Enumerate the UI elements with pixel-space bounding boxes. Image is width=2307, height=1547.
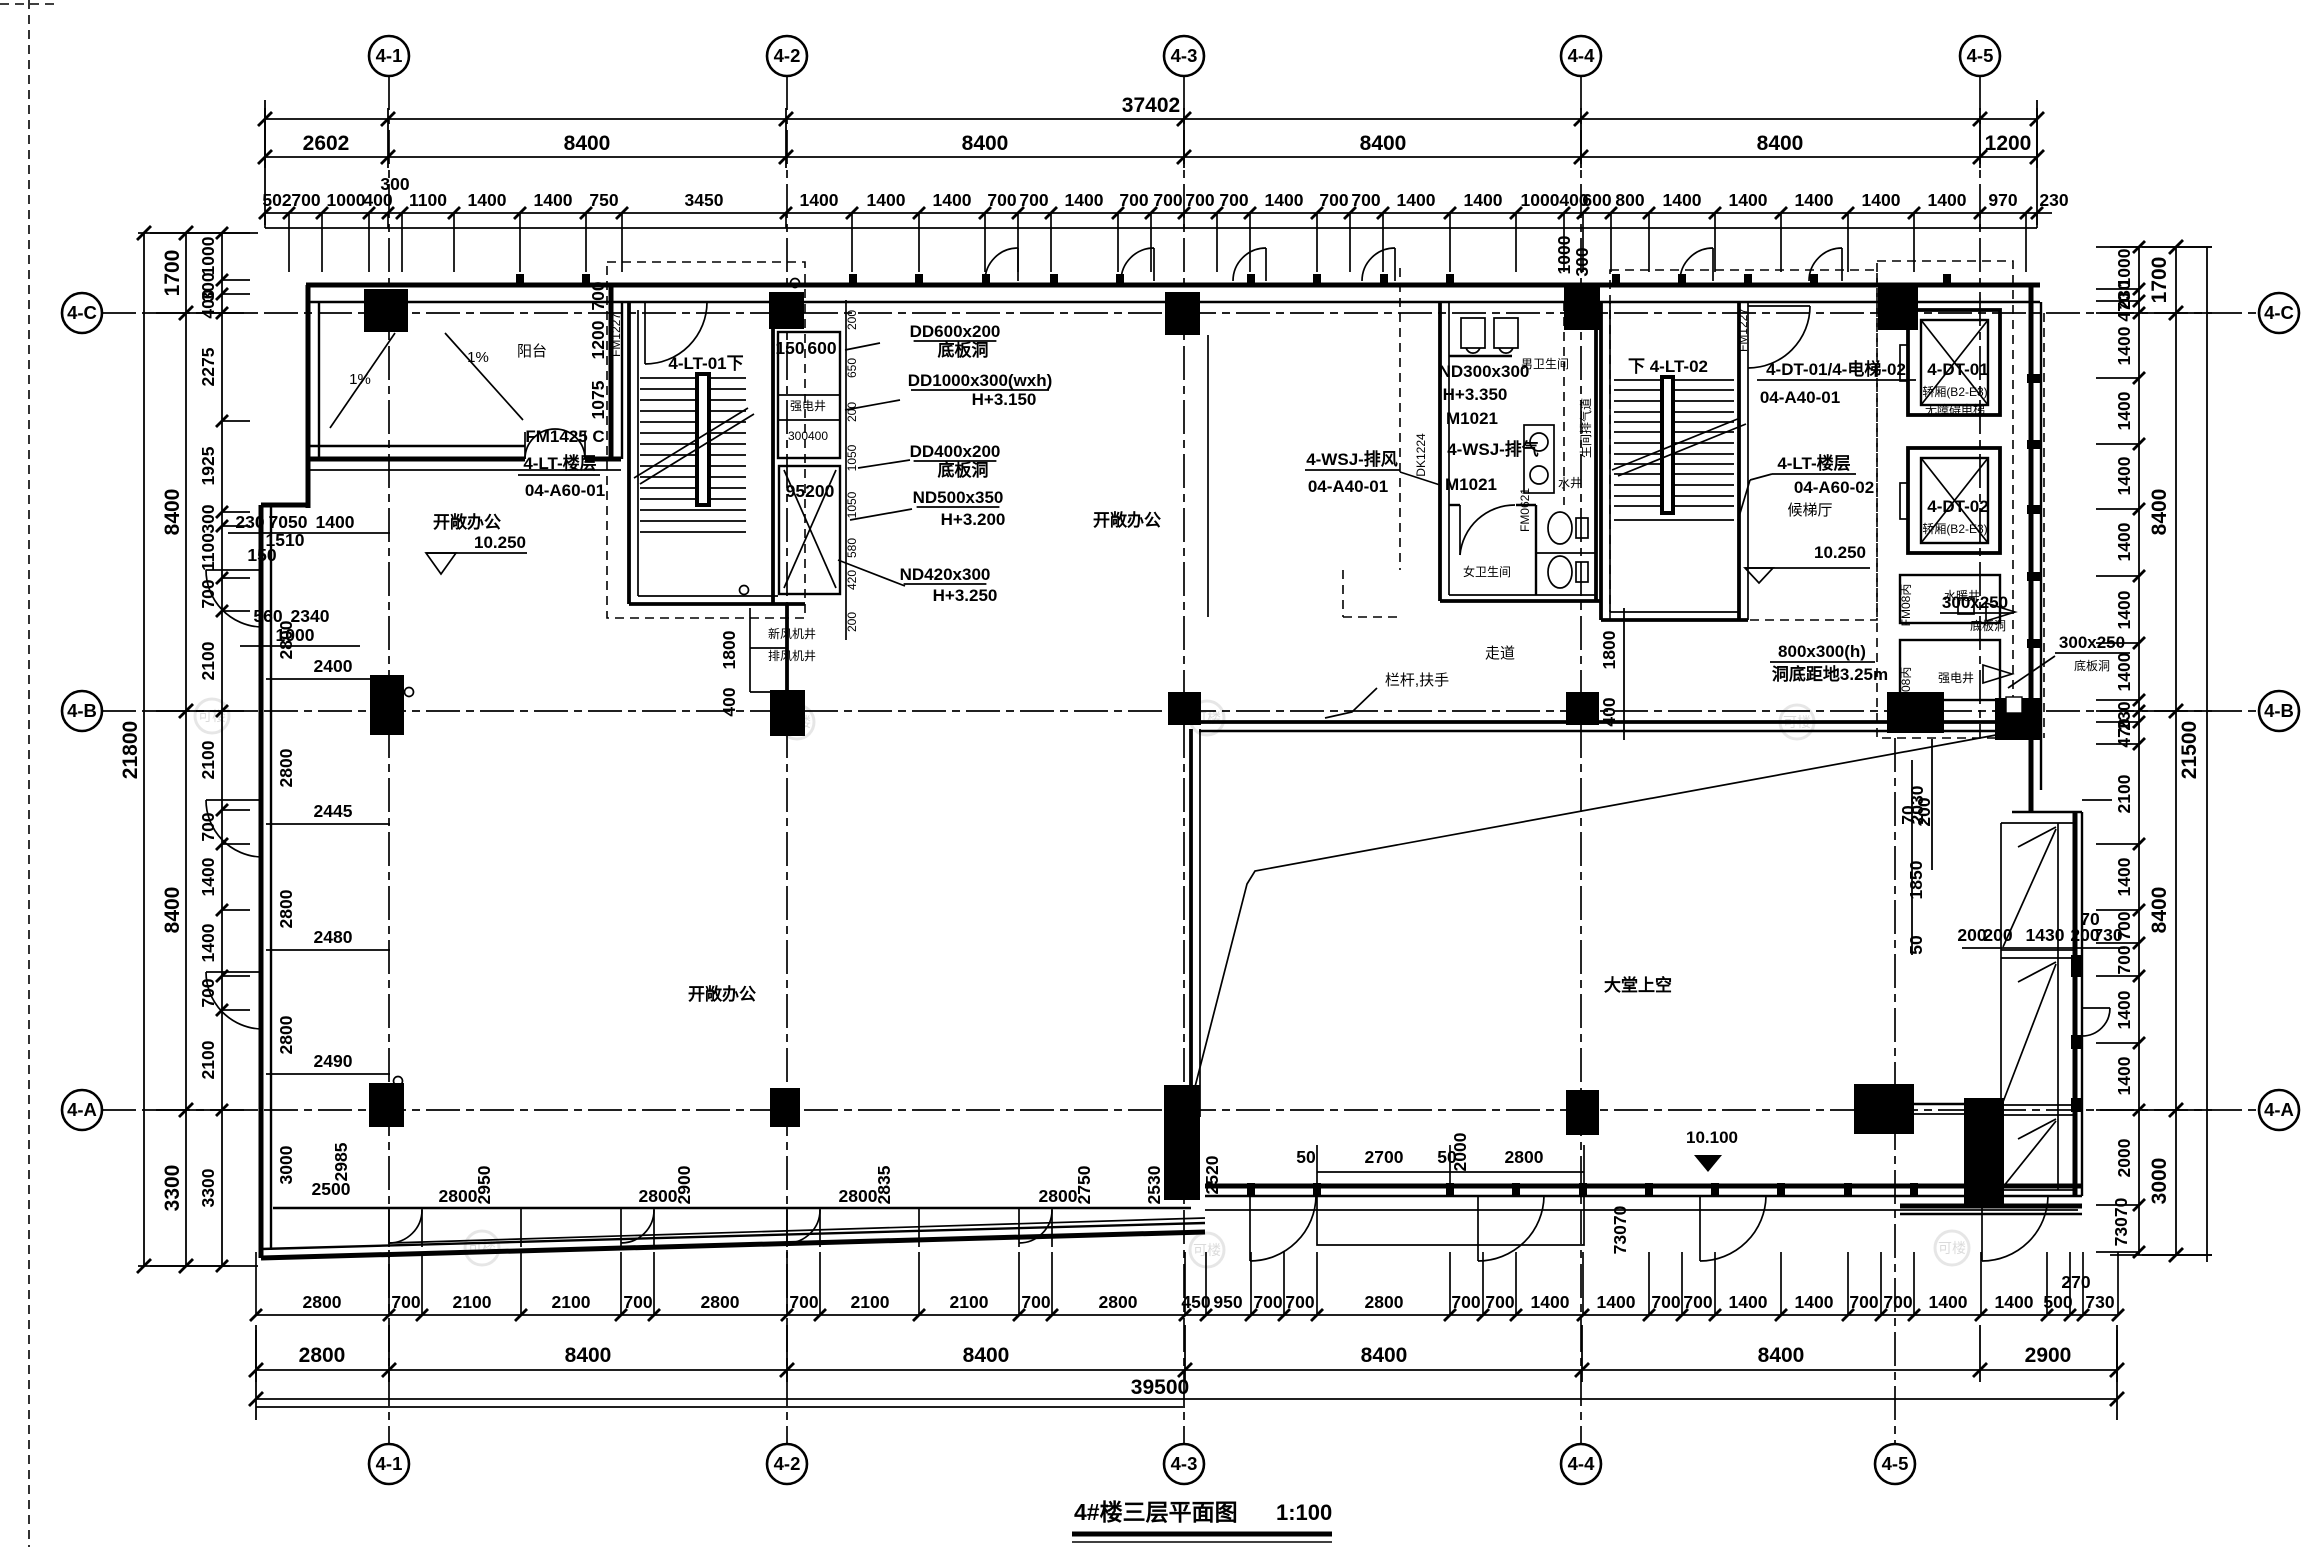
corridor wall 4-B xyxy=(1199,720,2031,724)
stair2 treads xyxy=(1614,379,1734,381)
balcony slope diagonals xyxy=(330,333,395,428)
column 4-1/4-C xyxy=(364,289,408,332)
svg-text:4-LT-楼层: 4-LT-楼层 xyxy=(1777,453,1850,473)
svg-text:300x250: 300x250 xyxy=(1942,593,2008,612)
svg-text:4-A: 4-A xyxy=(2264,1099,2294,1120)
svg-text:21800: 21800 xyxy=(119,721,142,779)
wall 4-3 south xyxy=(1189,729,1193,1117)
door north wall x1121 xyxy=(1153,248,1155,281)
svg-text:8400: 8400 xyxy=(962,132,1009,155)
svg-text:M1021: M1021 xyxy=(1445,475,1497,494)
bottom dimension chains xyxy=(249,1252,2124,1420)
svg-text:1400: 1400 xyxy=(534,190,573,210)
south wall east xyxy=(1205,1184,2082,1189)
east strip jog xyxy=(2012,811,2082,813)
svg-text:4-C: 4-C xyxy=(2264,302,2294,323)
svg-text:200: 200 xyxy=(1914,797,1934,826)
svg-text:2000: 2000 xyxy=(1450,1132,1470,1171)
svg-text:2100: 2100 xyxy=(198,1040,218,1079)
door sw wall x787 xyxy=(787,1210,820,1243)
svg-text:1400: 1400 xyxy=(2114,326,2134,365)
svg-text:2800: 2800 xyxy=(1039,1186,1078,1206)
svg-text:1400: 1400 xyxy=(1795,1292,1834,1312)
svg-text:4-5: 4-5 xyxy=(1882,1453,1909,1474)
svg-text:1400: 1400 xyxy=(2114,652,2134,691)
stair core 4-LT-02 xyxy=(1601,302,1810,620)
bath west wall xyxy=(1438,302,1442,601)
svg-text:FM08丙: FM08丙 xyxy=(1899,584,1913,627)
dim line 37402 xyxy=(265,118,2037,120)
svg-text:8400: 8400 xyxy=(161,489,184,536)
svg-text:2445: 2445 xyxy=(314,801,353,821)
svg-text:4-2: 4-2 xyxy=(774,45,801,66)
svg-text:1400: 1400 xyxy=(2114,590,2134,629)
svg-text:04-A40-01: 04-A40-01 xyxy=(1760,388,1840,407)
svg-text:女卫生间: 女卫生间 xyxy=(1463,564,1511,579)
eave line xyxy=(265,227,2037,229)
svg-text:生间排气道: 生间排气道 xyxy=(1578,398,1593,458)
svg-text:700: 700 xyxy=(291,190,320,210)
svg-text:10.250: 10.250 xyxy=(474,533,526,552)
column 4-3/4-B xyxy=(1168,692,1201,725)
svg-text:底板洞: 底板洞 xyxy=(1970,618,2006,633)
grid axis 4-1 xyxy=(388,76,390,1444)
svg-text:2900: 2900 xyxy=(674,1165,694,1204)
svg-text:1200: 1200 xyxy=(1985,132,2032,155)
column 4-4/4-B xyxy=(1566,692,1599,725)
svg-text:1400: 1400 xyxy=(1729,1292,1768,1312)
right dimension chains xyxy=(2027,240,2212,1262)
svg-text:730: 730 xyxy=(2085,1292,2114,1312)
stair2 handrail xyxy=(1660,375,1675,515)
svg-text:200: 200 xyxy=(845,310,859,330)
svg-text:走道: 走道 xyxy=(1485,645,1515,662)
stair1 break line xyxy=(634,408,748,478)
svg-text:420: 420 xyxy=(845,570,859,590)
svg-text:21500: 21500 xyxy=(2178,721,2201,779)
svg-text:DK1224: DK1224 xyxy=(1414,433,1428,477)
svg-text:10.100: 10.100 xyxy=(1686,1128,1738,1147)
svg-text:37402: 37402 xyxy=(1122,94,1180,117)
door FM1425 xyxy=(525,429,555,459)
svg-text:95200: 95200 xyxy=(786,481,835,501)
svg-text:ND500x350: ND500x350 xyxy=(913,488,1004,507)
svg-text:1800: 1800 xyxy=(719,630,739,669)
svg-text:1200: 1200 xyxy=(588,320,608,359)
svg-text:2750: 2750 xyxy=(1074,1165,1094,1204)
svg-text:800x300(h): 800x300(h) xyxy=(1778,642,1866,661)
column 4-5/4-C xyxy=(1878,287,1918,330)
column 4-1/4-B xyxy=(370,675,404,735)
svg-text:下 4-LT-02: 下 4-LT-02 xyxy=(1628,357,1708,376)
svg-text:3300: 3300 xyxy=(198,1168,218,1207)
svg-text:39500: 39500 xyxy=(1131,1376,1189,1399)
stair2 south wall xyxy=(1601,618,1748,622)
svg-text:阳台: 阳台 xyxy=(517,343,547,360)
svg-text:150: 150 xyxy=(247,545,276,565)
svg-text:200: 200 xyxy=(1983,925,2012,945)
stair1 west wall xyxy=(627,302,631,604)
balcony east partition xyxy=(609,285,614,459)
svg-text:650: 650 xyxy=(845,358,859,378)
door east wall xyxy=(2082,1007,2110,1009)
svg-text:4-A: 4-A xyxy=(67,1099,97,1120)
svg-text:ND420x300: ND420x300 xyxy=(900,565,991,584)
svg-text:1700: 1700 xyxy=(2148,257,2171,304)
svg-text:开敞办公: 开敞办公 xyxy=(433,512,501,532)
door se wall x1982 xyxy=(1981,1196,1983,1261)
svg-text:1100: 1100 xyxy=(409,190,447,210)
svg-text:1400: 1400 xyxy=(1995,1292,2034,1312)
door north wall x1809 xyxy=(1841,248,1843,281)
svg-text:3000: 3000 xyxy=(276,1145,296,1184)
svg-text:700: 700 xyxy=(2114,945,2134,974)
svg-text:1400: 1400 xyxy=(198,923,218,962)
svg-text:300: 300 xyxy=(380,174,409,194)
svg-text:FM1227: FM1227 xyxy=(609,313,623,357)
dim line 8400 chain xyxy=(265,156,2037,158)
door west wall y570 xyxy=(206,569,261,571)
top dimension chains xyxy=(258,94,2069,272)
svg-text:700: 700 xyxy=(1153,190,1182,210)
wall 4-A east stub xyxy=(1914,1103,2001,1105)
svg-text:1800: 1800 xyxy=(1599,630,1619,669)
svg-text:2800: 2800 xyxy=(1505,1147,1544,1167)
column 4-3/4-A tall xyxy=(1164,1085,1200,1200)
svg-text:700: 700 xyxy=(1319,190,1348,210)
funnel door symbols xyxy=(1986,603,2015,621)
svg-text:2100: 2100 xyxy=(198,641,218,680)
svg-text:1000: 1000 xyxy=(1521,190,1560,210)
svg-text:270: 270 xyxy=(2061,1272,2090,1292)
svg-text:400: 400 xyxy=(719,687,739,716)
svg-text:1400: 1400 xyxy=(2114,857,2134,896)
column 4-2/4-B xyxy=(770,690,805,736)
svg-text:1000: 1000 xyxy=(1554,235,1574,274)
svg-text:04-A40-01: 04-A40-01 xyxy=(1308,477,1388,496)
svg-text:2800: 2800 xyxy=(276,1015,296,1054)
svg-text:600: 600 xyxy=(807,338,836,358)
svg-text:2100: 2100 xyxy=(950,1292,989,1312)
svg-text:700: 700 xyxy=(391,1292,420,1312)
column wall 4-B east xyxy=(1995,698,2040,740)
svg-text:300x250: 300x250 xyxy=(2059,633,2125,652)
duct annotation block xyxy=(838,322,1052,605)
svg-text:底板洞: 底板洞 xyxy=(2074,658,2110,673)
svg-text:4#楼三层平面图: 4#楼三层平面图 xyxy=(1074,1499,1238,1525)
grid axis 4-3 xyxy=(1183,76,1185,1444)
svg-text:4-1: 4-1 xyxy=(376,45,403,66)
svg-text:2000: 2000 xyxy=(2114,1138,2134,1177)
svg-text:04-A60-01: 04-A60-01 xyxy=(525,481,605,500)
svg-text:4-WSJ-排气: 4-WSJ-排气 xyxy=(1447,439,1539,459)
dashed duct lines xyxy=(1399,268,1401,570)
svg-text:10.250: 10.250 xyxy=(1814,543,1866,562)
svg-text:1400: 1400 xyxy=(867,190,906,210)
svg-text:700: 700 xyxy=(1219,190,1248,210)
svg-text:8400: 8400 xyxy=(963,1344,1010,1367)
north wall inner xyxy=(306,301,2040,303)
grid axis 4-B xyxy=(102,710,2259,712)
stair1 door xyxy=(644,302,646,364)
svg-text:底板洞: 底板洞 xyxy=(938,460,989,480)
door north wall x1680 xyxy=(1712,248,1714,281)
svg-text:470: 470 xyxy=(2114,292,2134,321)
svg-text:2530: 2530 xyxy=(1144,1165,1164,1204)
svg-text:04-A60-02: 04-A60-02 xyxy=(1794,478,1874,497)
svg-text:1050: 1050 xyxy=(845,491,859,518)
svg-text:2100: 2100 xyxy=(552,1292,591,1312)
svg-text:强电井: 强电井 xyxy=(1938,671,1974,685)
svg-text:FM1425 C: FM1425 C xyxy=(525,427,604,446)
svg-text:1430: 1430 xyxy=(2026,925,2065,945)
svg-text:4-3: 4-3 xyxy=(1171,45,1198,66)
svg-text:1400: 1400 xyxy=(1929,1292,1968,1312)
door north wall x1233 xyxy=(1265,248,1267,281)
door se wall x1250 xyxy=(1249,1196,1251,1261)
svg-text:7050: 7050 xyxy=(269,512,308,532)
svg-text:4-5: 4-5 xyxy=(1967,45,1994,66)
grid axis 4-A xyxy=(102,1109,2259,1111)
grid axis 4-2 xyxy=(786,76,788,1444)
svg-text:4-C: 4-C xyxy=(67,302,97,323)
column 4-3/4-C xyxy=(1165,292,1200,335)
column 4-2/4-C xyxy=(769,292,804,329)
svg-text:2800: 2800 xyxy=(439,1186,478,1206)
window panels east strip xyxy=(2001,822,2075,824)
svg-text:1400: 1400 xyxy=(2114,456,2134,495)
bathroom block xyxy=(1343,268,1602,617)
svg-text:4-2: 4-2 xyxy=(774,1453,801,1474)
svg-text:700: 700 xyxy=(1651,1292,1680,1312)
svg-text:4-4: 4-4 xyxy=(1568,1453,1595,1474)
svg-text:700: 700 xyxy=(1253,1292,1282,1312)
svg-text:4-1: 4-1 xyxy=(376,1453,403,1474)
svg-text:2900: 2900 xyxy=(2025,1344,2072,1367)
svg-text:2100: 2100 xyxy=(851,1292,890,1312)
grid axis 4-C xyxy=(102,312,2259,314)
svg-text:2480: 2480 xyxy=(314,927,353,947)
svg-text:4-LT-楼层: 4-LT-楼层 xyxy=(523,453,596,473)
west wall xyxy=(259,505,264,1258)
svg-text:4-DT-01/4-电梯-02: 4-DT-01/4-电梯-02 xyxy=(1766,359,1906,379)
svg-text:1400: 1400 xyxy=(1464,190,1503,210)
svg-text:2800: 2800 xyxy=(276,889,296,928)
svg-text:700: 700 xyxy=(789,1292,818,1312)
svg-text:开敞办公: 开敞办公 xyxy=(1093,510,1161,530)
svg-text:1400: 1400 xyxy=(933,190,972,210)
south wall west (slanted) xyxy=(261,1232,1205,1258)
svg-text:2800: 2800 xyxy=(276,620,296,659)
svg-text:8400: 8400 xyxy=(1758,1344,1805,1367)
shaft block right of stair1 xyxy=(719,300,859,717)
svg-text:73070: 73070 xyxy=(2111,1197,2131,1246)
svg-text:8400: 8400 xyxy=(564,132,611,155)
column 4-4/4-A xyxy=(1566,1090,1599,1135)
bath east wall xyxy=(1594,302,1598,601)
door north wall x1362 xyxy=(1394,248,1396,281)
svg-text:150: 150 xyxy=(775,338,804,358)
svg-text:1400: 1400 xyxy=(1531,1292,1570,1312)
svg-text:580: 580 xyxy=(845,538,859,558)
bath south wall xyxy=(1440,599,1602,603)
svg-text:4-B: 4-B xyxy=(2264,700,2294,721)
svg-text:1850: 1850 xyxy=(1906,860,1926,899)
svg-text:洞底距地3.25m: 洞底距地3.25m xyxy=(1772,664,1888,684)
svg-text:栏杆,扶手: 栏杆,扶手 xyxy=(1385,672,1449,689)
svg-text:1400: 1400 xyxy=(1663,190,1702,210)
svg-text:8400: 8400 xyxy=(1361,1344,1408,1367)
column 4-2/4-A xyxy=(770,1088,800,1127)
svg-text:2400: 2400 xyxy=(314,656,353,676)
svg-text:2800: 2800 xyxy=(639,1186,678,1206)
svg-text:8400: 8400 xyxy=(565,1344,612,1367)
svg-text:8400: 8400 xyxy=(1360,132,1407,155)
svg-text:FM1227: FM1227 xyxy=(1736,308,1750,352)
svg-text:8400: 8400 xyxy=(1757,132,1804,155)
small slab holes xyxy=(1958,598,1974,614)
svg-text:DD400x200: DD400x200 xyxy=(910,442,1001,461)
door sw wall x621 xyxy=(621,1210,654,1243)
svg-text:700: 700 xyxy=(1485,1292,1514,1312)
svg-text:1400: 1400 xyxy=(316,512,355,532)
fine dim chain bottom xyxy=(256,1314,2118,1316)
svg-text:1100: 1100 xyxy=(198,533,218,571)
svg-text:700: 700 xyxy=(588,281,608,310)
stair1 treads xyxy=(640,377,746,379)
dim line 8400 chain bottom xyxy=(256,1369,2117,1371)
stair2 door xyxy=(1748,305,1810,307)
svg-text:200: 200 xyxy=(845,402,859,422)
svg-text:4-DT-01: 4-DT-01 xyxy=(1927,360,1988,379)
column 4-5/4-B xyxy=(1887,692,1944,733)
svg-text:无障碍电梯: 无障碍电梯 xyxy=(1925,402,1985,417)
elevator doors sill xyxy=(1900,345,1908,381)
elevator shaft DT-01 xyxy=(1908,310,2000,415)
svg-text:2800: 2800 xyxy=(299,1344,346,1367)
svg-text:2340: 2340 xyxy=(291,606,330,626)
svg-text:1400: 1400 xyxy=(2114,990,2134,1029)
se corner ledge xyxy=(1900,1204,2082,1209)
balcony west wall xyxy=(306,285,311,508)
svg-text:H+3.350: H+3.350 xyxy=(1443,385,1508,404)
svg-text:1075: 1075 xyxy=(588,380,608,419)
svg-text:1400: 1400 xyxy=(1729,190,1768,210)
north wall outer xyxy=(306,283,2040,288)
duct walls below stair1 xyxy=(749,608,751,692)
door north wall x985 xyxy=(1017,248,1019,281)
svg-text:3450: 3450 xyxy=(685,190,724,210)
svg-text:新风机井: 新风机井 xyxy=(768,626,816,641)
svg-text:4-WSJ-排风: 4-WSJ-排风 xyxy=(1306,449,1398,469)
door west wall y800 xyxy=(206,799,261,801)
svg-text:2800: 2800 xyxy=(276,748,296,787)
east strip outer wall xyxy=(2073,812,2078,1196)
svg-text:2100: 2100 xyxy=(2114,774,2134,813)
svg-text:1400: 1400 xyxy=(1928,190,1967,210)
svg-text:1400: 1400 xyxy=(1065,190,1104,210)
svg-text:750: 750 xyxy=(589,190,618,210)
svg-text:1050: 1050 xyxy=(845,444,859,471)
svg-text:502: 502 xyxy=(262,190,291,210)
svg-text:1:100: 1:100 xyxy=(1276,1500,1332,1525)
stair2 west wall xyxy=(1599,302,1603,620)
grid axis 4-4 xyxy=(1580,76,1582,1444)
elevator shaft DT-02 xyxy=(1908,448,2000,553)
leaders xyxy=(845,343,880,350)
svg-text:1925: 1925 xyxy=(198,446,218,485)
sink counter xyxy=(1524,425,1554,493)
svg-text:H+3.250: H+3.250 xyxy=(933,586,998,605)
svg-text:4-DT-02: 4-DT-02 xyxy=(1927,497,1988,516)
svg-text:2100: 2100 xyxy=(198,740,218,779)
svg-text:3300: 3300 xyxy=(161,1165,184,1212)
svg-text:1400: 1400 xyxy=(468,190,507,210)
svg-text:1400: 1400 xyxy=(1862,190,1901,210)
grid axis 4-5 xyxy=(1979,76,1981,738)
interior floor line sw xyxy=(273,1207,1191,1209)
faint watermarks xyxy=(195,699,229,733)
svg-text:970: 970 xyxy=(1988,190,2017,210)
svg-text:1400: 1400 xyxy=(2114,522,2134,561)
svg-text:2800: 2800 xyxy=(839,1186,878,1206)
svg-text:1700: 1700 xyxy=(161,250,184,297)
dashed boundary lobby xyxy=(1877,261,2013,738)
svg-text:强电井: 强电井 xyxy=(790,399,826,413)
svg-text:4-B: 4-B xyxy=(67,700,97,721)
stair core 4-LT-01 xyxy=(607,262,805,618)
svg-text:800: 800 xyxy=(1615,190,1644,210)
svg-text:950: 950 xyxy=(1213,1292,1242,1312)
stair2 break line xyxy=(1612,418,1740,470)
stair1 handrail xyxy=(695,372,711,507)
door west wall y972 xyxy=(206,971,261,973)
svg-text:400: 400 xyxy=(198,289,218,318)
elevator core xyxy=(1610,261,2022,738)
svg-text:4-LT-01下: 4-LT-01下 xyxy=(668,354,743,373)
svg-text:1400: 1400 xyxy=(1397,190,1436,210)
partition walls xyxy=(1449,504,1460,506)
column 4-4/4-C xyxy=(1564,287,1600,330)
svg-text:1400: 1400 xyxy=(1265,190,1304,210)
door sw wall x389 xyxy=(389,1210,422,1243)
urinals xyxy=(1461,318,1485,348)
svg-text:1400: 1400 xyxy=(198,857,218,896)
east wall upper xyxy=(2029,285,2034,812)
women door arc xyxy=(1459,505,1461,555)
svg-text:700: 700 xyxy=(1021,1292,1050,1312)
west wall jog xyxy=(261,503,308,508)
svg-text:50: 50 xyxy=(1906,935,1926,955)
svg-text:DD600x200: DD600x200 xyxy=(910,322,1001,341)
door sw wall x1019 xyxy=(1019,1210,1052,1243)
lobby void boundary diagonal xyxy=(1186,733,2007,1122)
svg-text:3000: 3000 xyxy=(2148,1158,2171,1205)
svg-text:DD1000x300(wxh): DD1000x300(wxh) xyxy=(908,371,1053,390)
door se wall x1478 xyxy=(1477,1196,1479,1261)
building walls xyxy=(206,248,2112,1261)
svg-text:水井: 水井 xyxy=(1558,476,1582,490)
svg-text:73070: 73070 xyxy=(1610,1205,1630,1254)
svg-text:4-4: 4-4 xyxy=(1568,45,1595,66)
svg-text:H+3.200: H+3.200 xyxy=(941,510,1006,529)
svg-text:1%: 1% xyxy=(467,349,489,366)
stair1 east wall xyxy=(771,302,775,604)
svg-text:1400: 1400 xyxy=(800,190,839,210)
svg-text:70: 70 xyxy=(2080,909,2100,929)
left dimension chains xyxy=(119,226,258,1273)
svg-text:轿厢(B2-E3): 轿厢(B2-E3) xyxy=(1922,521,1987,536)
